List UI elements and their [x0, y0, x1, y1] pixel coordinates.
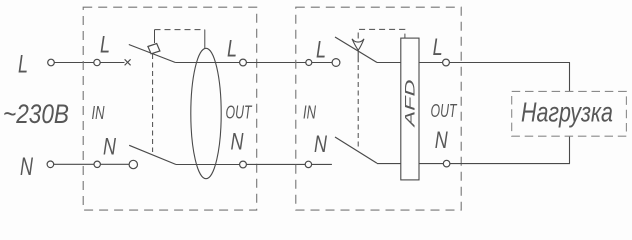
svg-text:IN: IN	[303, 103, 317, 123]
AFDD trip arrow stem	[357, 50, 359, 62]
svg-text:L: L	[227, 36, 237, 63]
AFDD pole-coupling dashed link	[357, 65, 359, 150]
terminal circle L AFDD input	[306, 60, 312, 66]
AFD unit rectangle	[401, 38, 419, 180]
AFDD switch blade N	[335, 137, 377, 163]
svg-text:L: L	[316, 37, 326, 64]
fixed contact circle L AFDD	[332, 59, 340, 67]
svg-text:N: N	[20, 153, 34, 181]
fixed contact circle N	[129, 160, 137, 168]
svg-text:N: N	[314, 131, 327, 158]
RCD switch blade L	[129, 45, 176, 63]
AFDD dashed enclosure	[296, 7, 461, 210]
wire N RCD output to AFDD input	[246, 163, 305, 165]
RCD dashed enclosure	[83, 7, 257, 210]
RCD trip linkage right riser to CT	[204, 30, 206, 49]
terminal circle N AFDD output	[443, 160, 450, 167]
RCD trip solenoid square on L blade	[148, 44, 160, 54]
terminal circle L RCD output	[240, 59, 247, 66]
wire N blade hinge to CT	[176, 164, 240, 166]
svg-text:N: N	[435, 127, 448, 154]
svg-text:OUT: OUT	[431, 101, 458, 121]
wire L drop to load top	[569, 63, 571, 92]
RCD pole-coupling dashed link	[152, 54, 154, 152]
AFDD trip linkage dashed to AFD unit	[358, 29, 405, 38]
svg-text:IN: IN	[92, 103, 106, 123]
AFDD switch blade L	[335, 37, 377, 63]
current transformer ellipse	[191, 48, 221, 178]
terminal circle N AFDD input	[305, 161, 311, 167]
terminal circle L RCD input	[94, 59, 100, 65]
RCD linkage to trip square (solid riser)	[154, 30, 156, 43]
RCD switch blade N	[129, 145, 176, 164]
wire N AFDD output to load	[450, 163, 570, 165]
wire N AFD unit to output terminal	[419, 163, 443, 165]
AFDD trip arrow	[352, 39, 364, 50]
svg-text:L: L	[433, 34, 443, 61]
terminal circle N supply	[47, 161, 54, 168]
wire L AFDD contact stub	[312, 62, 332, 64]
wire N supply to RCD input	[54, 163, 94, 165]
load dashed box	[512, 91, 627, 136]
wire L AFDD output to load	[449, 62, 570, 64]
wire L to fixed contact	[100, 62, 124, 64]
terminal circle N RCD output	[240, 161, 247, 168]
RCD trip linkage dashed top run	[155, 29, 205, 31]
wire N blade to AFD unit	[377, 163, 401, 165]
svg-text:L: L	[18, 51, 28, 79]
terminal circle L supply	[48, 59, 55, 66]
wire N to fixed contact	[100, 163, 129, 165]
terminal circle N RCD input	[94, 161, 100, 167]
wire L blade to AFD unit	[377, 62, 401, 64]
svg-text:N: N	[231, 129, 244, 156]
svg-text:N: N	[103, 133, 116, 160]
svg-text:OUT: OUT	[226, 103, 253, 123]
wire L RCD output to AFDD input	[246, 62, 305, 64]
svg-text:L: L	[100, 31, 110, 58]
svg-text:~230В: ~230В	[3, 99, 69, 129]
svg-text:AFD: AFD	[402, 80, 418, 129]
wire L AFD unit to output terminal	[419, 62, 443, 64]
wire L supply to RCD input	[54, 62, 94, 64]
wire N rise to load bottom	[569, 136, 571, 163]
wire L blade hinge to CT	[175, 62, 239, 64]
wire N AFDD contact stub	[312, 163, 332, 165]
fixed contact x marker L	[125, 59, 131, 65]
terminal circle L AFDD output	[443, 59, 450, 66]
svg-text:Нагрузка: Нагрузка	[521, 97, 613, 128]
